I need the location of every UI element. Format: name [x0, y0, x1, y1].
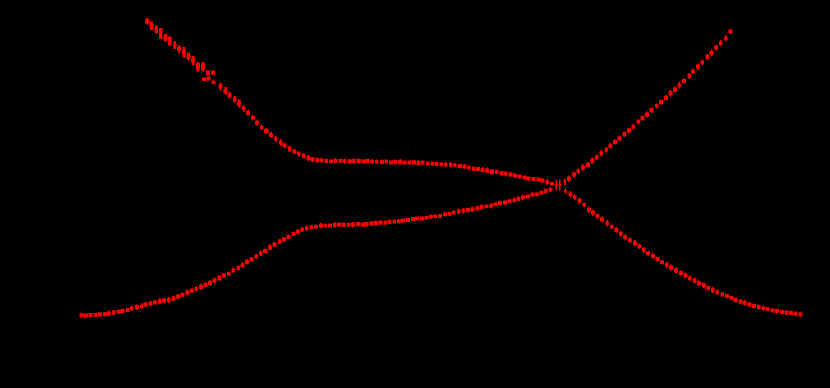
curve A: data points descending from top-left to bottom-right: [145, 18, 802, 318]
crossing point error bars: [555, 179, 561, 190]
curve B: data points rising from bottom-left to top-right: [80, 29, 733, 319]
knot cluster on curve A: [197, 62, 200, 72]
